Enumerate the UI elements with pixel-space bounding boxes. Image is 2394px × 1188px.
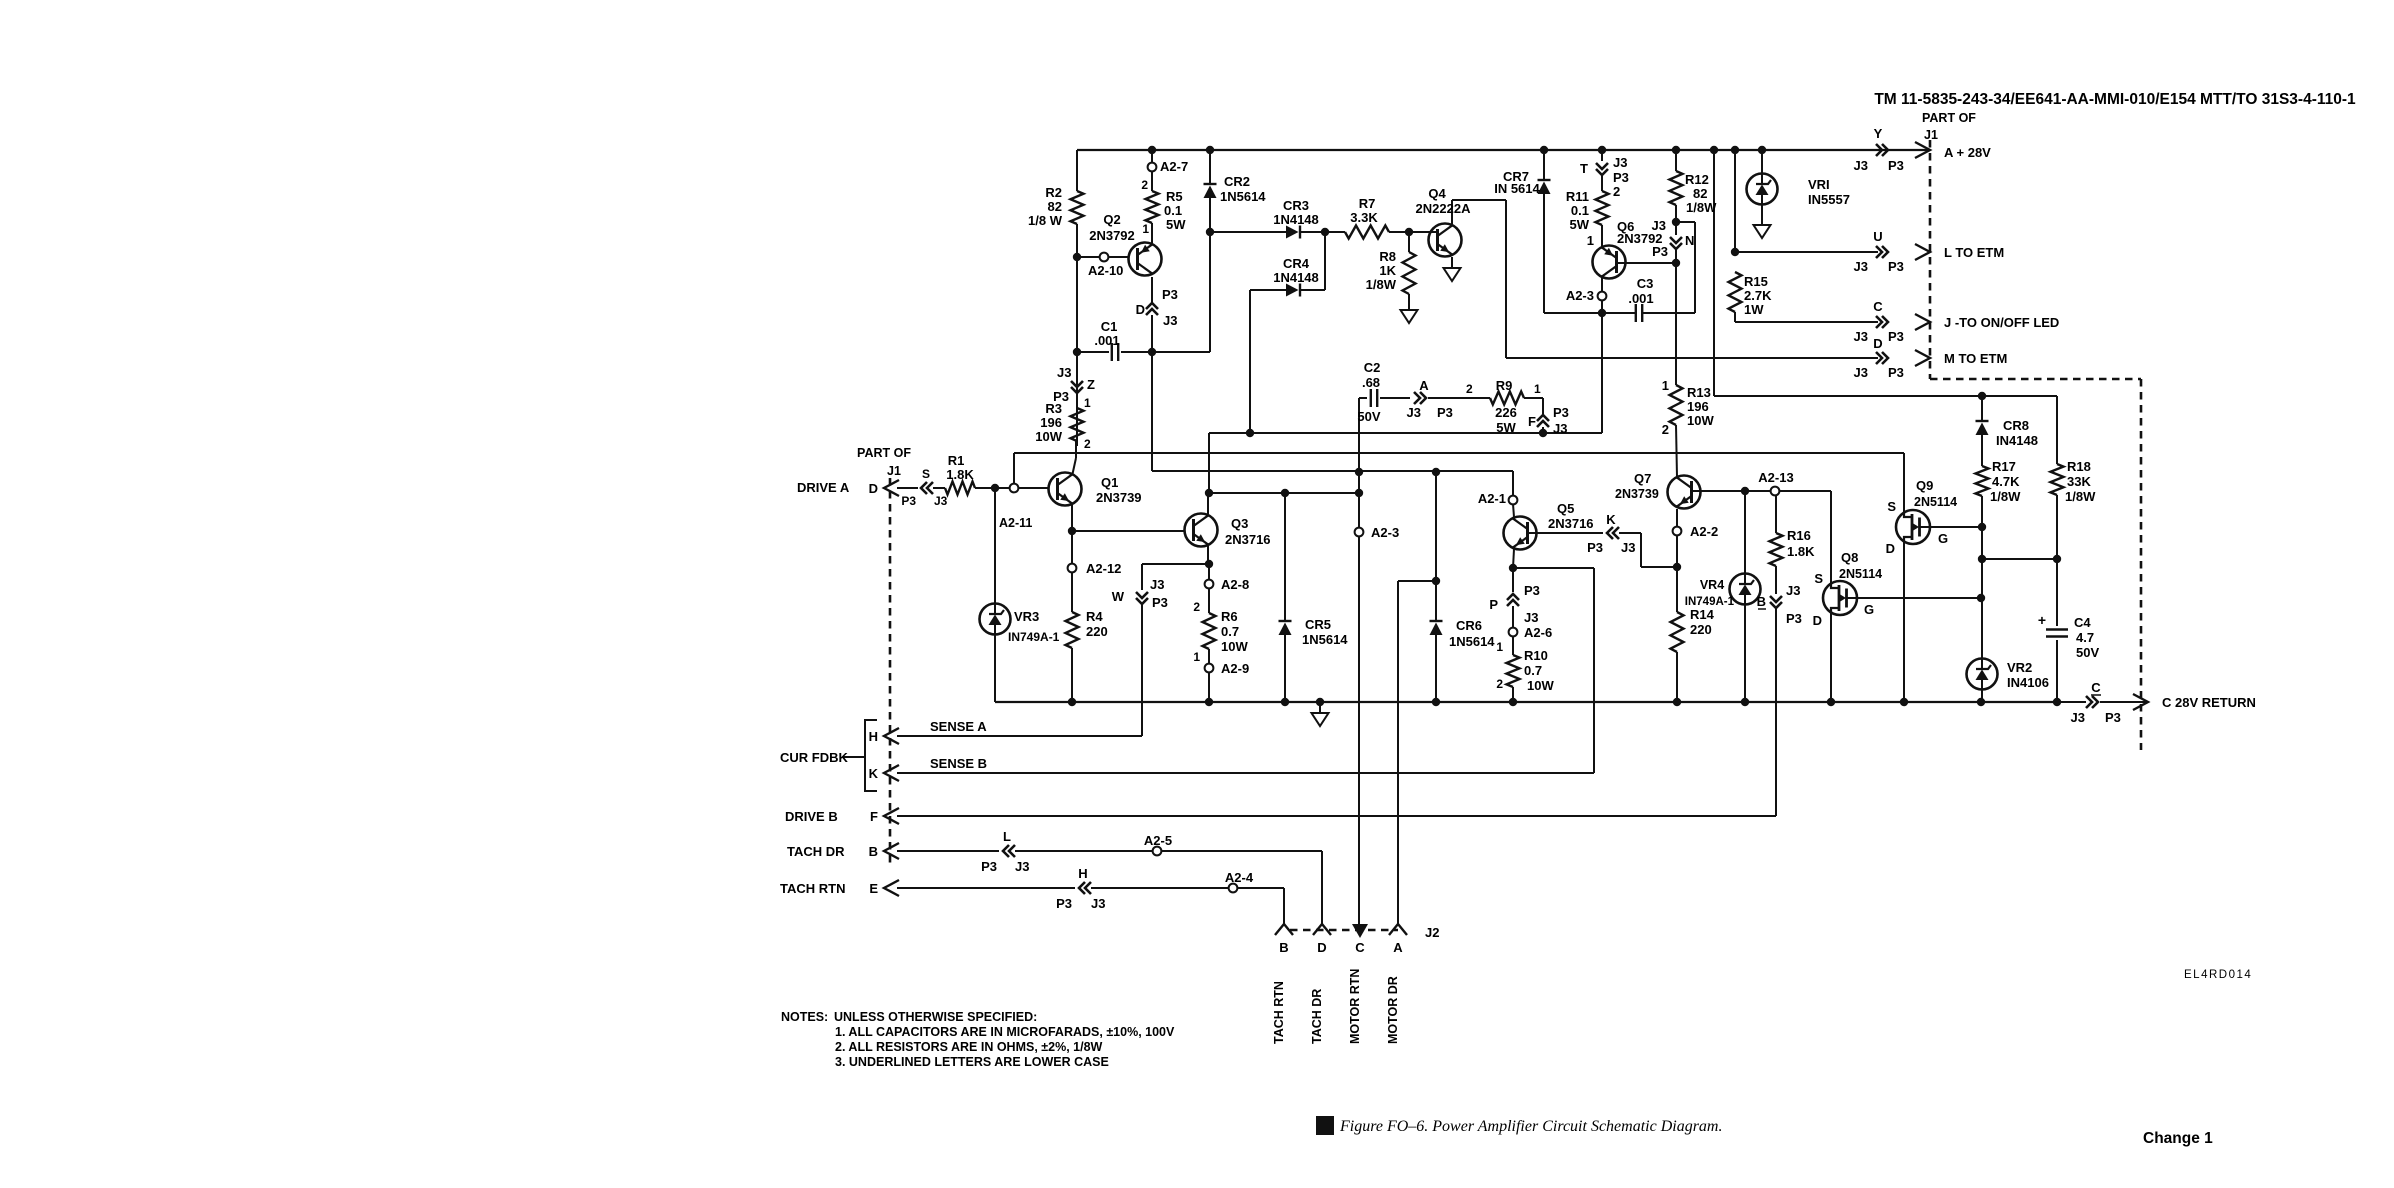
svg-text:A2-3: A2-3: [1371, 525, 1399, 540]
svg-text:3. UNDERLINED LETTERS ARE LOWE: 3. UNDERLINED LETTERS ARE LOWER CASE: [835, 1055, 1109, 1069]
wire VR3 to bus: [994, 635, 996, 702]
svg-text:P3: P3: [981, 859, 997, 874]
svg-text:2: 2: [1141, 178, 1148, 192]
svg-text:P3: P3: [1553, 405, 1569, 420]
diode CR4 1N4148: [1286, 284, 1299, 297]
svg-text:S: S: [922, 467, 930, 481]
svg-text:50V: 50V: [2076, 645, 2099, 660]
node C1 left: [1073, 348, 1081, 356]
svg-text:F: F: [870, 809, 878, 824]
terminal A2-2: [1673, 527, 1682, 536]
svg-text:J3: J3: [1163, 313, 1177, 328]
svg-text:2N3716: 2N3716: [1225, 532, 1271, 547]
wire H2 to A2-1: [1512, 471, 1514, 496]
svg-text:PART OF: PART OF: [857, 446, 911, 460]
node bus/CR5: [1281, 698, 1289, 706]
connector chevron B J3/P3: [1770, 596, 1782, 608]
svg-text:1: 1: [1587, 233, 1594, 248]
svg-text:J3: J3: [1854, 329, 1868, 344]
svg-text:10W: 10W: [1687, 413, 1714, 428]
resistor R8: [1403, 252, 1416, 294]
svg-text:+: +: [2038, 612, 2046, 628]
connector arrow K (SENSE B): [884, 765, 899, 781]
svg-text:0.1: 0.1: [1164, 203, 1182, 218]
svg-text:D: D: [869, 481, 878, 496]
resistor R18 33K: [2051, 464, 2064, 495]
svg-text:196: 196: [1040, 415, 1062, 430]
svg-text:Q1: Q1: [1101, 475, 1118, 490]
ground below VR1: [1754, 225, 1771, 238]
svg-text:R10: R10: [1524, 648, 1548, 663]
svg-text:R18: R18: [2067, 459, 2091, 474]
resistor R17 4.7K: [1976, 466, 1989, 496]
zener diode VR4 1N749A-1: [1730, 574, 1761, 605]
wire rail to VR1: [1761, 150, 1763, 174]
wire C3 line left: [1544, 312, 1636, 314]
svg-text:A2-10: A2-10: [1088, 263, 1123, 278]
svg-text:J3: J3: [1621, 540, 1635, 555]
node R17/R18 link: [1978, 555, 1986, 563]
wire H2 motor net horizontal: [1152, 470, 1513, 472]
svg-text:H: H: [1078, 866, 1087, 881]
wire A2-2 to R14: [1676, 535, 1678, 612]
wire R3 to Q1 collector: [1075, 441, 1077, 458]
svg-text:C2: C2: [1364, 360, 1381, 375]
svg-text:A2-6: A2-6: [1524, 625, 1552, 640]
svg-text:SENSE A: SENSE A: [930, 719, 987, 734]
transistor Q6 2N3792: [1593, 246, 1626, 279]
wire chevron T to R11: [1601, 175, 1603, 191]
wire TACH DR left: [897, 850, 999, 852]
node bus/Q8 drain: [1827, 698, 1835, 706]
wire B chevron to DRIVE B line: [1775, 608, 1777, 816]
wire C3 right: [1642, 312, 1695, 314]
wire Q5 emitter to P chevron: [1512, 572, 1514, 592]
zener diode VR3 1N749A-1: [980, 604, 1011, 635]
wire K jog right: [1619, 532, 1641, 534]
wire Q1 emitter to Q3 base: [1072, 530, 1184, 532]
node CR2/CR3: [1206, 228, 1214, 236]
svg-text:A2-8: A2-8: [1221, 577, 1249, 592]
resistor R6: [1203, 613, 1216, 649]
diode CR3 1N4148: [1286, 226, 1299, 239]
diode CR8 1N4148: [1976, 420, 1989, 422]
ground on return bus: [1312, 713, 1329, 726]
wire R8 to ground: [1408, 294, 1410, 310]
svg-text:R1: R1: [948, 453, 965, 468]
wire Q2 emitter node down (motor net riser): [1151, 352, 1153, 471]
wire down to R13: [1675, 263, 1677, 385]
resistor R5: [1146, 191, 1159, 223]
wire R4 to bus: [1071, 648, 1073, 702]
wire CR2 to CR3 line: [1209, 198, 1211, 232]
wire jog to R12 node: [1676, 221, 1695, 223]
wire Q3 emitter down: [1207, 546, 1209, 564]
connector chevron T J3/P3: [1596, 163, 1608, 175]
svg-text:T: T: [1580, 161, 1588, 176]
svg-text:P3: P3: [1888, 259, 1904, 274]
node bus/ground stub: [1316, 698, 1324, 706]
svg-text:0.1: 0.1: [1571, 203, 1589, 218]
terminal A2-4: [1229, 884, 1238, 893]
wire K jog down: [1640, 533, 1642, 567]
capacitor C2 .68 50V: [1371, 389, 1377, 407]
svg-text:R13: R13: [1687, 385, 1711, 400]
wire TACH DR riser to J2-D: [1321, 851, 1323, 924]
terminal A2-13: [1771, 487, 1780, 496]
node bus/R14: [1673, 698, 1681, 706]
svg-text:CR4: CR4: [1283, 256, 1310, 271]
svg-text:1/8W: 1/8W: [2065, 489, 2096, 504]
wire A2-10 to Q2 base: [1108, 256, 1128, 258]
connector J2-B fork: [1275, 924, 1293, 935]
wire TACH DR right: [1161, 850, 1322, 852]
svg-text:J3: J3: [1854, 365, 1868, 380]
underline for B: [1758, 608, 1766, 610]
connector arrow H (SENSE A): [884, 728, 899, 744]
svg-text:.001: .001: [1094, 333, 1119, 348]
svg-text:10W: 10W: [1221, 639, 1248, 654]
connector chevron D J3/P3: [1876, 352, 1888, 364]
svg-text:A2-13: A2-13: [1758, 470, 1793, 485]
svg-text:5W: 5W: [1570, 217, 1590, 232]
svg-text:C: C: [1355, 940, 1365, 955]
svg-text:J3: J3: [1553, 421, 1567, 436]
connector chevron K P3/J3: [1607, 527, 1619, 539]
diode CR5 1N5614: [1279, 620, 1292, 622]
svg-text:R6: R6: [1221, 609, 1238, 624]
svg-text:Figure FO–6. Power Amplifier: Figure FO–6. Power Amplifier Circuit Sch…: [1339, 1118, 1722, 1135]
wire H3 motor net: [1208, 492, 1359, 494]
wire rail to R12: [1675, 150, 1677, 171]
wire R1 to A2-11: [975, 487, 1010, 489]
wire R17 down through gate nodes: [1981, 496, 1983, 658]
wire to A2-13 circle: [1749, 490, 1771, 492]
J1 connector dashed boundary right: [1929, 140, 1932, 379]
svg-text:D: D: [1873, 336, 1882, 351]
transistor Q9 2N5114 MOSFET: [1896, 510, 1930, 544]
svg-text:Q9: Q9: [1916, 478, 1933, 493]
svg-text:D: D: [1136, 302, 1145, 317]
svg-text:1N5614: 1N5614: [1449, 634, 1495, 649]
svg-text:DRIVE B: DRIVE B: [785, 809, 838, 824]
J2 connector dashed line: [1290, 929, 1398, 932]
svg-text:1/8 W: 1/8 W: [1028, 213, 1063, 228]
svg-text:A2-5: A2-5: [1144, 833, 1172, 848]
svg-text:P3: P3: [1888, 158, 1904, 173]
node Q3 emitter: [1205, 560, 1213, 568]
capacitor C3: [1636, 304, 1642, 322]
wire Q2 emitter down: [1151, 277, 1153, 303]
connector chevron Y J3/P3: [1876, 144, 1888, 156]
svg-text:Y: Y: [1874, 126, 1883, 141]
svg-text:2. ALL RESISTORS ARE IN OHMS,: 2. ALL RESISTORS ARE IN OHMS, ±2%, 1/8W: [835, 1040, 1103, 1054]
wire down to A2-12: [1071, 531, 1073, 564]
svg-text:P3: P3: [1652, 244, 1668, 259]
svg-text:IN4148: IN4148: [1996, 433, 2038, 448]
node H3/CR5: [1281, 489, 1289, 497]
svg-text:5W: 5W: [1166, 217, 1186, 232]
svg-text:Q7: Q7: [1634, 471, 1651, 486]
svg-text:F: F: [1528, 414, 1536, 429]
terminal A2-5: [1153, 847, 1162, 856]
wire jog up: [1694, 222, 1696, 313]
node U/R15: [1731, 248, 1739, 256]
svg-text:J3: J3: [1524, 610, 1538, 625]
connector arrow C 28V RETURN: [2133, 694, 2148, 710]
svg-text:K: K: [1606, 512, 1616, 527]
wire Q8 gate line: [1857, 597, 1981, 599]
wire Q4 collector right: [1452, 199, 1506, 201]
node Q7 base/VR4: [1741, 487, 1749, 495]
terminal A2-10: [1100, 253, 1109, 262]
svg-text:Q2: Q2: [1103, 212, 1120, 227]
wire rail to T chevron: [1601, 150, 1603, 161]
svg-text:2: 2: [1084, 437, 1091, 451]
svg-text:1: 1: [1193, 650, 1200, 664]
node bus/CR6: [1432, 698, 1440, 706]
terminal A2-11: [1010, 484, 1019, 493]
svg-text:50V: 50V: [1357, 409, 1380, 424]
connector chevron L P3/J3: [1003, 845, 1015, 857]
node H3/motor riser: [1355, 489, 1363, 497]
wire Q5 emitter down: [1513, 549, 1514, 568]
wire Q4 collector up: [1451, 200, 1453, 224]
wire tap to MOTOR DR riser: [1398, 580, 1436, 582]
svg-text:D: D: [1317, 940, 1326, 955]
terminal A2-1: [1509, 496, 1518, 505]
svg-text:196: 196: [1687, 399, 1709, 414]
wire rail to A2-7: [1151, 150, 1153, 163]
node rail/R11: [1598, 146, 1606, 154]
svg-text:0.7: 0.7: [1221, 624, 1239, 639]
svg-text:2N3739: 2N3739: [1096, 490, 1142, 505]
svg-text:C: C: [1873, 299, 1883, 314]
wire +28V riser to CR8 line: [1713, 150, 1715, 396]
wire down to CR4: [1324, 232, 1326, 290]
svg-text:P3: P3: [1162, 287, 1178, 302]
node CR8 top: [1978, 392, 1986, 400]
svg-text:1/8W: 1/8W: [1366, 277, 1397, 292]
wire U TO ETM: [1735, 251, 1878, 253]
svg-text:R9: R9: [1496, 378, 1513, 393]
connector chevron H P3/J3: [1079, 882, 1091, 894]
svg-text:R11: R11: [1566, 189, 1589, 204]
capacitor C4 4.7 50V: [2046, 630, 2068, 637]
wire A2-8 to R6: [1208, 588, 1210, 613]
wire R12 to N chevron: [1675, 205, 1677, 235]
svg-text:1K: 1K: [1379, 263, 1396, 278]
svg-text:CUR FDBK: CUR FDBK: [780, 750, 848, 765]
svg-text:TACH DR: TACH DR: [787, 844, 845, 859]
svg-text:NOTES:: NOTES:: [781, 1010, 828, 1024]
connector chevron C J3/P3: [1876, 316, 1888, 328]
node bus/R4: [1068, 698, 1076, 706]
svg-text:PART OF: PART OF: [1922, 111, 1976, 125]
svg-text:10W: 10W: [1527, 678, 1554, 693]
svg-text:2.7K: 2.7K: [1744, 288, 1772, 303]
node bus/C4: [2053, 698, 2061, 706]
resistor R9 226 5W: [1490, 392, 1524, 405]
wire VR2 to bus: [1981, 690, 1983, 702]
svg-text:R7: R7: [1359, 196, 1376, 211]
wire into Q1 collector: [1073, 458, 1077, 474]
wire bus to ground: [1319, 702, 1321, 713]
svg-text:CR8: CR8: [2003, 418, 2029, 433]
terminal A2-8: [1205, 580, 1214, 589]
svg-text:TACH RTN: TACH RTN: [780, 881, 845, 896]
wire SENSE A: [897, 735, 1142, 737]
svg-text:1.8K: 1.8K: [946, 467, 974, 482]
connector chevron A J3/P3: [1414, 392, 1426, 404]
wire R11 to Q6: [1601, 225, 1603, 248]
svg-text:VR3: VR3: [1014, 609, 1039, 624]
wire Q5 emitter to SENSE B riser: [1513, 567, 1594, 569]
svg-text:A2-1: A2-1: [1478, 491, 1506, 506]
svg-text:J3: J3: [1150, 577, 1164, 592]
node H2/motor riser: [1355, 468, 1363, 476]
svg-text:82: 82: [1693, 186, 1707, 201]
svg-text:1N4148: 1N4148: [1273, 270, 1319, 285]
svg-text:J3: J3: [1407, 405, 1421, 420]
svg-text:TACH RTN: TACH RTN: [1272, 981, 1286, 1044]
transistor Q7 2N3739: [1668, 476, 1701, 509]
wire +28V top rail: [1077, 149, 1930, 151]
svg-text:N: N: [1685, 233, 1694, 248]
svg-text:2: 2: [1496, 677, 1503, 691]
bracket CUR FDBK: [865, 720, 877, 791]
wire to A2-10: [1077, 256, 1100, 258]
wire A2-6 to R10: [1512, 636, 1514, 655]
wire F net horizontal: [1209, 432, 1602, 434]
node CR4 riser / F line: [1246, 429, 1254, 437]
wire CR6 to bus: [1435, 635, 1437, 702]
wire Q3 collector riser: [1207, 493, 1209, 514]
svg-text:G: G: [1864, 602, 1874, 617]
svg-text:UNLESS OTHERWISE SPECIFIED:: UNLESS OTHERWISE SPECIFIED:: [834, 1010, 1037, 1024]
wire A to R9: [1428, 397, 1490, 399]
svg-text:2N5114: 2N5114: [1914, 495, 1957, 509]
svg-text:A2-12: A2-12: [1086, 561, 1121, 576]
svg-text:J3: J3: [1015, 859, 1029, 874]
wire H1 down to Q9 source: [1903, 453, 1905, 515]
svg-text:33K: 33K: [2067, 474, 2091, 489]
node Q6 base: [1672, 259, 1680, 267]
wire 28V return bus: [995, 701, 2057, 703]
wire R15 bottom: [1734, 312, 1736, 322]
svg-text:1N5614: 1N5614: [1220, 189, 1266, 204]
wire bus to C chevron: [2057, 701, 2086, 703]
node R18/C4: [2053, 555, 2061, 563]
svg-text:P3: P3: [2105, 710, 2121, 725]
wire K jog to Q7 emitter: [1641, 566, 1677, 568]
svg-text:R12: R12: [1685, 172, 1709, 187]
node R12/jog: [1672, 218, 1680, 226]
diode CR6 1N5614: [1430, 620, 1443, 622]
wire rail to CR7: [1543, 150, 1545, 180]
node CR6/motor-dr tap: [1432, 577, 1440, 585]
connector arrow B (TACH DR): [884, 843, 899, 859]
svg-text:H: H: [869, 729, 878, 744]
ground below Q4: [1444, 268, 1461, 281]
J1 dashed boundary top right: [1930, 378, 2141, 381]
underline for C: [2091, 694, 2101, 696]
svg-text:0.7: 0.7: [1524, 663, 1542, 678]
wire DRIVE A: [897, 487, 918, 489]
svg-text:VRI: VRI: [1808, 177, 1830, 192]
wire SENSE B: [897, 772, 1594, 774]
terminal A2-9: [1205, 664, 1214, 673]
wire C to ON/OFF LED: [1735, 321, 1878, 323]
svg-text:IN5557: IN5557: [1808, 192, 1850, 207]
node Q1 emitter/Q3 base: [1068, 527, 1076, 535]
transistor Q1 2N3739: [1049, 473, 1082, 506]
svg-text:E: E: [869, 881, 878, 896]
node C1/Q2 emitter: [1148, 348, 1156, 356]
svg-text:J2: J2: [1425, 925, 1439, 940]
svg-text:J3: J3: [1091, 896, 1105, 911]
wire DRIVE B line: [897, 815, 1776, 817]
svg-text:D: D: [1813, 613, 1822, 628]
svg-text:2N3792: 2N3792: [1089, 228, 1135, 243]
wire H1 to A2-11: [1013, 453, 1015, 484]
svg-text:2N3739: 2N3739: [1615, 487, 1659, 501]
wire R9 right: [1524, 397, 1543, 399]
svg-text:TM 11-5835-243-34/EE641-AA-MMI: TM 11-5835-243-34/EE641-AA-MMI-010/E154 …: [1874, 91, 2356, 108]
svg-text:L: L: [1003, 829, 1011, 844]
zener diode VR1 1N5557: [1747, 174, 1778, 205]
wire down to R3: [1076, 352, 1078, 446]
resistor R13: [1670, 385, 1683, 425]
node H2/CR6: [1432, 468, 1440, 476]
svg-text:P3: P3: [1437, 405, 1453, 420]
wire SENSE B riser: [1593, 568, 1595, 773]
svg-text:IN4106: IN4106: [2007, 675, 2049, 690]
wire Q1 base node to VR3: [994, 488, 996, 603]
svg-text:1: 1: [1662, 378, 1669, 393]
wire A2-12 to R4: [1071, 572, 1073, 612]
node Q5 emitter: [1509, 564, 1517, 572]
wire TACH DR mid: [1015, 850, 1153, 852]
node bus/VR2: [1977, 698, 1985, 706]
transistor Q4 2N2222A: [1429, 224, 1462, 257]
svg-text:J -TO ON/OFF LED: J -TO ON/OFF LED: [1944, 315, 2059, 330]
terminal A2-7: [1148, 163, 1157, 172]
svg-text:2: 2: [1662, 422, 1669, 437]
svg-text:P3: P3: [1152, 595, 1168, 610]
svg-text:2N3716: 2N3716: [1548, 516, 1594, 531]
wire A2-9 to bus: [1208, 672, 1210, 702]
svg-text:1/8W: 1/8W: [1686, 200, 1717, 215]
svg-text:B: B: [869, 844, 878, 859]
wire M TO ETM line: [1506, 357, 1878, 359]
wire R13 to Q7 collector: [1676, 425, 1677, 477]
svg-text:R16: R16: [1787, 528, 1811, 543]
node R7/R8: [1405, 228, 1413, 236]
wire A2-3 down to F line corner: [1601, 300, 1603, 433]
wire W riser upper: [1141, 564, 1143, 590]
connector J2-A fork: [1389, 924, 1407, 935]
wire R2 top: [1076, 150, 1078, 191]
resistor R15: [1729, 272, 1742, 312]
svg-text:EL4RD014: EL4RD014: [2184, 969, 2252, 981]
node bus/VR4: [1741, 698, 1749, 706]
wire Q1 emitter down: [1071, 505, 1073, 531]
svg-text:S: S: [1887, 499, 1896, 514]
wire P chevron to A2-6: [1512, 606, 1514, 628]
terminal A2-3: [1598, 292, 1607, 301]
svg-text:A: A: [1393, 940, 1403, 955]
